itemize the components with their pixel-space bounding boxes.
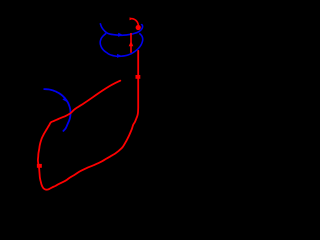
wire: short red connector between spiral turns: [130, 33, 132, 53]
node: square marker on right return line: [136, 75, 141, 79]
wire: blue C-shaped trajectory arc at middle left: [44, 89, 71, 131]
node: right arrowhead on outer turn: [117, 54, 122, 58]
wire: red hook curving into equilibrium: [130, 19, 138, 26]
node: square marker on left descending branch: [37, 164, 42, 168]
node: right arrowhead on inner turn: [118, 33, 123, 37]
wire: inner blue spiral turn (descent, run and curl past the dot): [100, 23, 142, 35]
wire: outer blue spiral turn: [100, 33, 143, 56]
node: equilibrium red dot: [136, 25, 141, 30]
node: arrowhead on C arc: [62, 97, 67, 102]
node: small arrowhead at hook tip: [130, 17, 133, 20]
wire: big red homoclinic loop excursion with right-side return line: [38, 51, 138, 190]
node: up arrowhead on short connector: [129, 41, 134, 46]
